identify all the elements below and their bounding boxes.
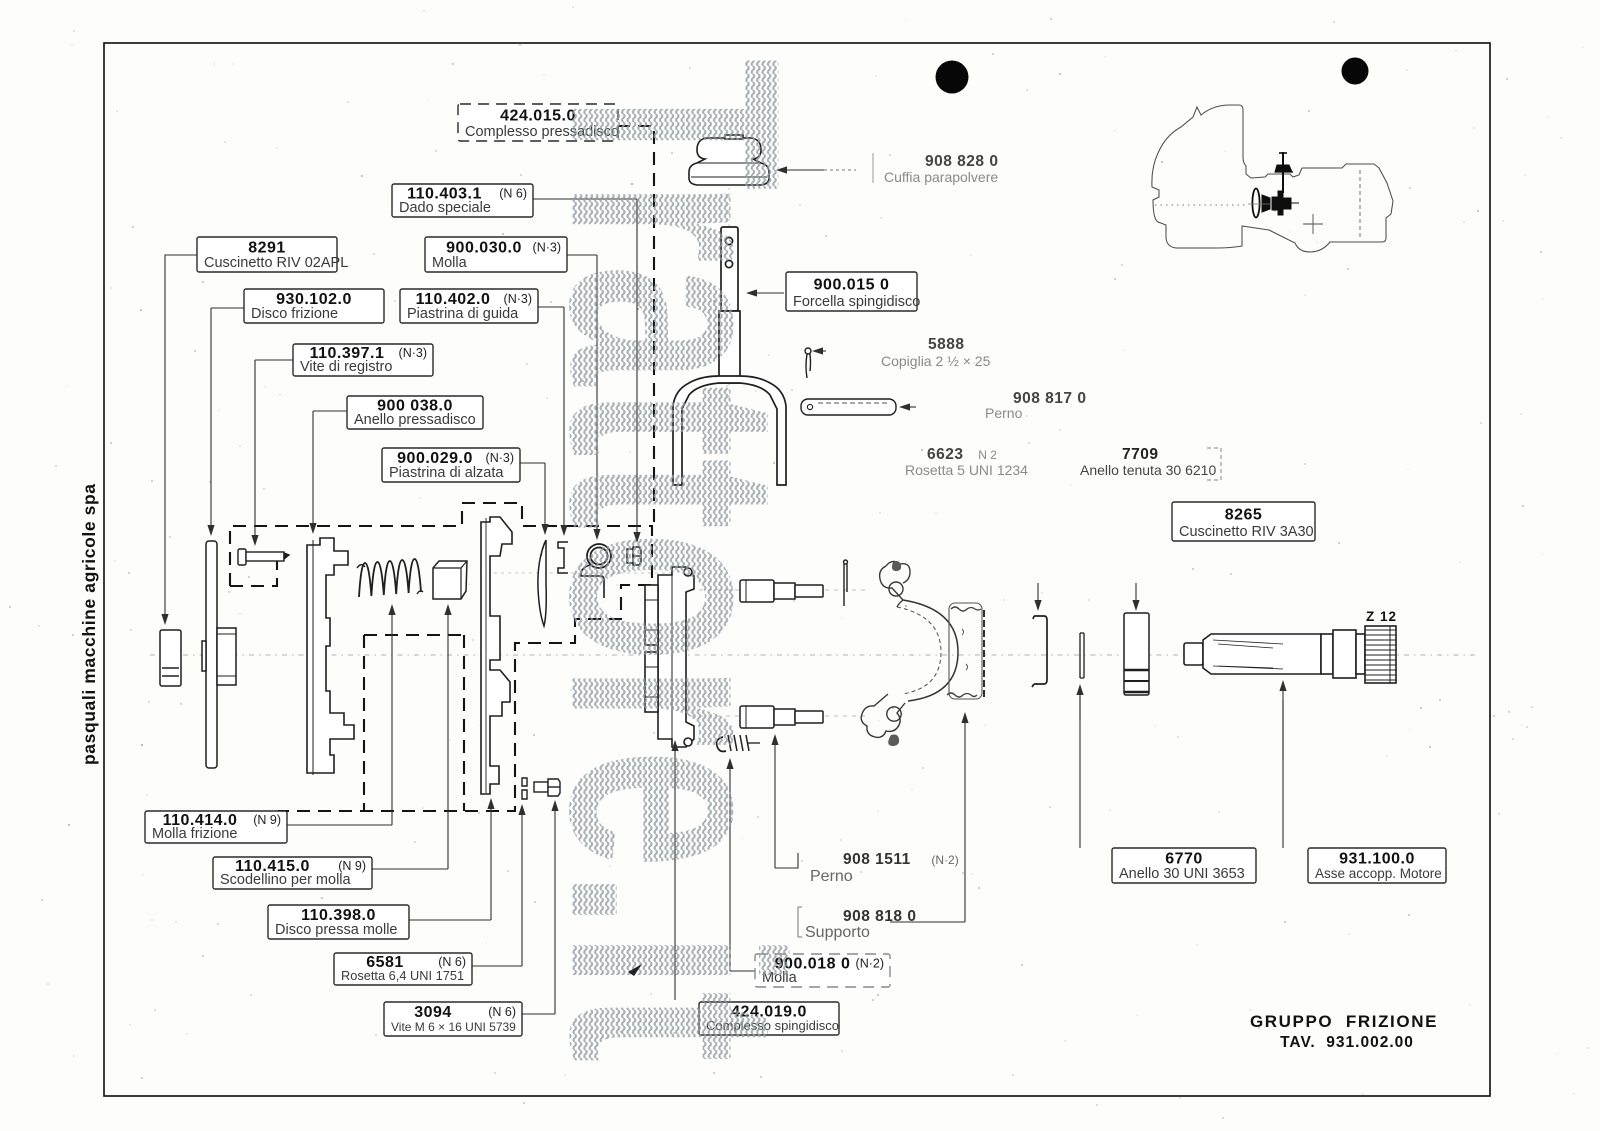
svg-text:GRUPPO FRIZIONE: GRUPPO FRIZIONE (1250, 1012, 1438, 1031)
svg-text:Rosetta 6,4 UNI 1751: Rosetta 6,4 UNI 1751 (341, 968, 464, 983)
svg-text:(N 6): (N 6) (438, 955, 466, 969)
svg-text:Cuscinetto RIV 02APL: Cuscinetto RIV 02APL (204, 255, 348, 271)
svg-text:908 818 0: 908 818 0 (843, 908, 916, 925)
svg-text:Z 12: Z 12 (1366, 609, 1397, 624)
svg-text:Piastrina di alzata: Piastrina di alzata (389, 465, 504, 481)
svg-text:908 1511: 908 1511 (843, 851, 911, 868)
svg-text:Cuscinetto RIV 3A30: Cuscinetto RIV 3A30 (1179, 524, 1314, 540)
svg-text:Rosetta 5 UNI 1234: Rosetta 5 UNI 1234 (905, 462, 1028, 478)
svg-text:Trattore.it: Trattore.it (508, 58, 844, 1063)
svg-text:Perno: Perno (985, 405, 1023, 421)
svg-text:Scodellino per molla: Scodellino per molla (220, 872, 352, 888)
svg-text:Disco frizione: Disco frizione (251, 306, 338, 322)
svg-text:(N·3): (N·3) (399, 346, 427, 360)
svg-text:Disco pressa molle: Disco pressa molle (275, 922, 398, 938)
svg-text:N 2: N 2 (978, 448, 997, 462)
svg-text:908 828 0: 908 828 0 (925, 153, 998, 170)
svg-text:(N 9): (N 9) (253, 813, 281, 827)
svg-text:908 817 0: 908 817 0 (1013, 390, 1086, 407)
svg-text:6623: 6623 (927, 446, 963, 463)
svg-text:pasquali macchine agricole spa: pasquali macchine agricole spa (79, 483, 99, 765)
svg-text:Molla: Molla (432, 255, 468, 271)
svg-text:Anello pressadisco: Anello pressadisco (354, 412, 476, 428)
svg-text:3094: 3094 (414, 1004, 452, 1021)
svg-text:(N·2): (N·2) (856, 957, 884, 971)
svg-text:Cuffia parapolvere: Cuffia parapolvere (884, 169, 998, 185)
svg-text:Vite M 6 × 16 UNI 5739: Vite M 6 × 16 UNI 5739 (391, 1020, 516, 1034)
svg-text:Copiglia 2 ½ × 25: Copiglia 2 ½ × 25 (881, 353, 991, 369)
svg-text:Piastrina di guida: Piastrina di guida (407, 306, 519, 322)
svg-text:8291: 8291 (248, 240, 286, 257)
svg-text:6770: 6770 (1165, 851, 1203, 868)
svg-text:5888: 5888 (928, 336, 964, 353)
svg-text:Asse accopp. Motore: Asse accopp. Motore (1315, 866, 1442, 881)
svg-text:(N·2): (N·2) (931, 853, 958, 867)
svg-text:TAV. 931.002.00: TAV. 931.002.00 (1280, 1034, 1414, 1051)
svg-text:Dado speciale: Dado speciale (399, 200, 491, 216)
svg-text:Vite di registro: Vite di registro (300, 359, 392, 375)
svg-text:Anello tenuta 30 6210: Anello tenuta 30 6210 (1080, 462, 1216, 478)
svg-text:Molla frizione: Molla frizione (152, 826, 237, 842)
svg-text:931.100.0: 931.100.0 (1339, 851, 1415, 868)
svg-text:8265: 8265 (1225, 507, 1263, 524)
svg-text:Anello 30 UNI 3653: Anello 30 UNI 3653 (1119, 866, 1245, 882)
svg-text:7709: 7709 (1122, 446, 1158, 463)
svg-text:(N 9): (N 9) (338, 859, 366, 873)
